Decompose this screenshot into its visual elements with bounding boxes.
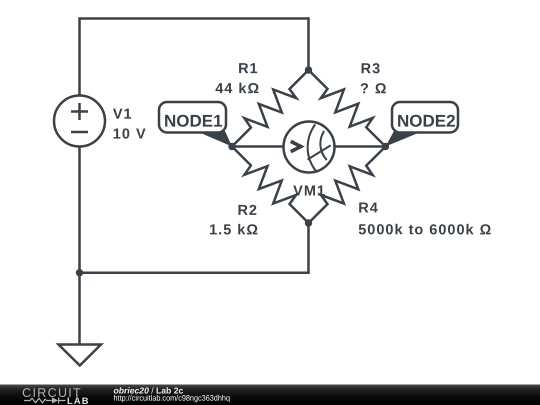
wire V1 bottom to ground	[78, 146, 81, 345]
node junction dots	[76, 66, 389, 276]
resistor R1	[232, 70, 309, 147]
svg-text:http://circuitlab.com/c98ngc36: http://circuitlab.com/c98ngc363dhhq	[113, 394, 230, 403]
svg-text:? Ω: ? Ω	[360, 81, 388, 97]
svg-text:VM1: VM1	[293, 184, 326, 200]
resistor R4	[309, 147, 386, 224]
svg-text:1.5 kΩ: 1.5 kΩ	[209, 222, 259, 238]
ground	[59, 345, 102, 366]
svg-text:44 kΩ: 44 kΩ	[215, 81, 260, 97]
svg-text:R4: R4	[358, 200, 379, 216]
resistor R3	[309, 70, 386, 147]
svg-text:10 V: 10 V	[113, 126, 147, 142]
footer logo CIRCUIT	[22, 385, 230, 405]
wire bridge horizontal (left node to right node through meter)	[232, 145, 386, 148]
svg-text:R3: R3	[361, 61, 382, 77]
svg-text:R1: R1	[238, 61, 259, 77]
resistor R2	[232, 147, 309, 224]
wire top loop: V1 top to bridge top node	[80, 19, 309, 97]
svg-text:R2: R2	[237, 203, 258, 219]
svg-text:NODE1: NODE1	[164, 112, 223, 131]
wire bottom node to bottom-left junction	[80, 222, 309, 273]
node NODE1 flag	[196, 131, 232, 147]
voltmeter VM1	[284, 122, 335, 173]
svg-text:V1: V1	[113, 107, 133, 123]
svg-text:5000k to 6000k Ω: 5000k to 6000k Ω	[358, 222, 492, 238]
svg-text:LAB: LAB	[67, 396, 90, 405]
footer bar	[0, 385, 540, 405]
voltage source V1	[54, 96, 105, 147]
svg-text:NODE2: NODE2	[397, 112, 456, 131]
node NODE2 flag	[386, 131, 424, 147]
footer logo zigzag and diode	[24, 397, 66, 403]
